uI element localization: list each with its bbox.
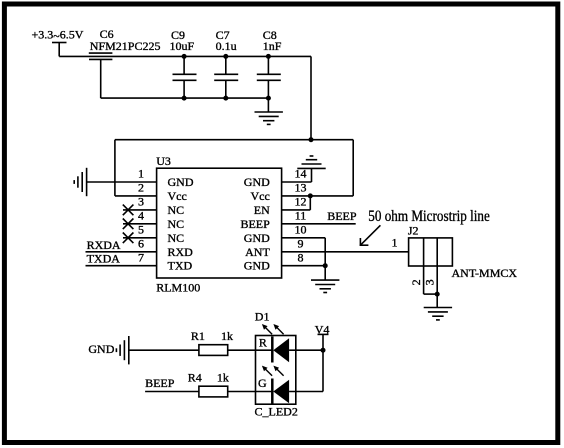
svg-text:U3: U3 — [156, 154, 171, 168]
svg-text:1: 1 — [138, 167, 144, 181]
svg-text:GND: GND — [88, 342, 114, 356]
svg-text:TXD: TXD — [168, 259, 193, 273]
svg-text:J2: J2 — [408, 223, 419, 237]
svg-text:GND: GND — [244, 175, 270, 189]
svg-text:RLM100: RLM100 — [156, 280, 200, 294]
svg-text:BEEP: BEEP — [240, 217, 270, 231]
svg-text:TXDA: TXDA — [87, 252, 121, 266]
svg-text:1nF: 1nF — [263, 39, 282, 53]
svg-text:3: 3 — [138, 195, 144, 209]
svg-text:R: R — [259, 336, 267, 350]
svg-text:1k: 1k — [221, 329, 233, 343]
svg-text:ANT-MMCX: ANT-MMCX — [452, 266, 518, 280]
svg-text:4: 4 — [138, 209, 144, 223]
svg-text:8: 8 — [298, 250, 304, 264]
svg-text:14: 14 — [295, 167, 307, 181]
svg-text:ANT: ANT — [245, 245, 270, 259]
svg-text:R4: R4 — [188, 371, 202, 385]
svg-text:11: 11 — [295, 209, 307, 223]
svg-text:13: 13 — [295, 181, 307, 195]
svg-text:RXDA: RXDA — [87, 238, 121, 252]
svg-text:R1: R1 — [191, 329, 205, 343]
svg-text:GND: GND — [244, 259, 270, 273]
svg-text:V4: V4 — [315, 322, 330, 336]
svg-text:BEEP: BEEP — [145, 376, 175, 390]
svg-text:NC: NC — [168, 231, 185, 245]
svg-text:9: 9 — [298, 237, 304, 251]
svg-text:50 ohm Microstrip line: 50 ohm Microstrip line — [368, 208, 490, 225]
svg-text:2: 2 — [409, 279, 423, 285]
svg-text:GND: GND — [244, 231, 270, 245]
svg-text:+3.3~6.5V: +3.3~6.5V — [32, 28, 84, 43]
svg-text:G: G — [258, 376, 267, 390]
svg-text:6: 6 — [138, 237, 144, 251]
svg-text:D1: D1 — [255, 309, 270, 323]
svg-text:Vcc: Vcc — [168, 189, 187, 203]
svg-text:0.1u: 0.1u — [216, 39, 237, 53]
svg-text:NFM21PC225: NFM21PC225 — [90, 39, 161, 53]
svg-text:GND: GND — [168, 175, 194, 189]
svg-text:1k: 1k — [217, 371, 229, 385]
svg-text:C_LED2: C_LED2 — [255, 405, 298, 419]
svg-text:EN: EN — [254, 203, 270, 217]
svg-text:3: 3 — [423, 279, 437, 285]
svg-text:NC: NC — [168, 217, 185, 231]
svg-text:RXD: RXD — [168, 245, 194, 259]
svg-text:2: 2 — [138, 181, 144, 195]
svg-text:NC: NC — [168, 203, 185, 217]
svg-text:5: 5 — [138, 223, 144, 237]
svg-text:BEEP: BEEP — [327, 209, 357, 223]
svg-text:10: 10 — [295, 223, 307, 237]
svg-text:Vcc: Vcc — [250, 189, 269, 203]
svg-text:10uF: 10uF — [170, 39, 195, 53]
svg-text:7: 7 — [138, 250, 144, 264]
svg-text:1: 1 — [392, 236, 398, 250]
svg-text:12: 12 — [295, 195, 307, 209]
